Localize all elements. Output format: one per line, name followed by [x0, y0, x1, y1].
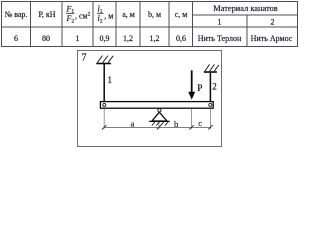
svg-text:a: a [131, 119, 135, 129]
svg-text:Нить Армос: Нить Армос [251, 34, 293, 43]
svg-text:7: 7 [82, 52, 87, 63]
svg-text:Материал канатов: Материал канатов [213, 4, 277, 13]
svg-text:1: 1 [108, 75, 113, 85]
svg-text:1: 1 [218, 18, 222, 27]
svg-text:№ вар.: № вар. [5, 10, 28, 19]
svg-text:а, м: а, м [122, 10, 135, 19]
svg-text:с, м: с, м [175, 10, 188, 19]
svg-text:1,2: 1,2 [123, 34, 133, 43]
svg-text:l2: l2 [98, 14, 103, 24]
svg-text:Р, кН: Р, кН [38, 10, 55, 19]
svg-text:1,2: 1,2 [150, 34, 160, 43]
svg-text:Нить Терлон: Нить Терлон [198, 34, 242, 43]
svg-text:b, м: b, м [148, 10, 161, 19]
svg-text:2: 2 [271, 18, 275, 27]
svg-text:0,9: 0,9 [100, 34, 110, 43]
svg-text:F2: F2 [65, 14, 74, 24]
svg-text:c: c [198, 118, 202, 128]
svg-text:2: 2 [212, 82, 217, 92]
svg-text:, м: , м [104, 11, 113, 20]
svg-text:6: 6 [14, 34, 18, 43]
svg-text:80: 80 [42, 34, 50, 43]
svg-text:P: P [197, 84, 202, 94]
svg-text:, см2: , см2 [75, 11, 91, 20]
svg-text:1: 1 [76, 34, 80, 43]
svg-text:b: b [174, 119, 179, 129]
svg-text:0,6: 0,6 [176, 34, 186, 43]
